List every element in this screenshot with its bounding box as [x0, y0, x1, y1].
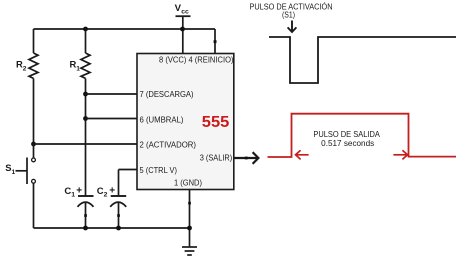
- waveform output pulse: [268, 114, 456, 157]
- capacitor C1 curved plate: [78, 202, 94, 207]
- power Vcc symbol bar: [176, 15, 191, 17]
- node junction R1 top: [83, 27, 88, 32]
- node junction trigger: [31, 142, 36, 147]
- wire C2 to bottom rail: [118, 203, 120, 229]
- resistor R2: [29, 53, 38, 78]
- wire R2 branch upper: [33, 29, 35, 53]
- wire pin 5 drop to C2: [118, 170, 120, 197]
- svg-text:2: 2: [104, 192, 108, 199]
- svg-text:1: 1: [12, 169, 16, 176]
- C1 stub dot: [84, 214, 87, 217]
- switch S1 bottom contact: [32, 179, 36, 183]
- switch S1 top contact: [32, 158, 36, 162]
- wire C1 to bottom rail: [85, 203, 87, 229]
- svg-text:+: +: [109, 186, 115, 197]
- node junction discharge: [83, 92, 88, 97]
- capacitor C1 top plate: [78, 195, 94, 197]
- wire bottom rail: [34, 227, 190, 229]
- svg-text:1: 1: [71, 192, 75, 199]
- width marker left arrow: [296, 150, 309, 159]
- capacitor C2 top plate: [111, 195, 127, 197]
- svg-text:7 (DESCARGA): 7 (DESCARGA): [140, 89, 194, 99]
- pin 4 stub dot: [214, 40, 217, 43]
- svg-text:1: 1: [76, 66, 80, 73]
- svg-text:(S1): (S1): [282, 11, 295, 20]
- wire pin 1 gnd drop: [189, 190, 191, 247]
- node junction threshold: [83, 116, 88, 121]
- IC U1 555 body: [137, 54, 234, 190]
- wire pin 7 discharge: [86, 93, 138, 95]
- trigger arrow: [288, 21, 297, 33]
- node junction Vcc rail: [180, 27, 185, 32]
- svg-text:6 (UMBRAL): 6 (UMBRAL): [140, 114, 184, 124]
- switch S1 actuator bar: [26, 158, 28, 185]
- svg-text:+: +: [76, 186, 82, 197]
- wire pin 2 trigger: [34, 143, 138, 145]
- svg-text:PULSO DE SALIDA: PULSO DE SALIDA: [313, 130, 380, 139]
- wire Vcc to pin 8: [182, 16, 184, 53]
- waveform trigger pulse: [269, 37, 456, 83]
- svg-text:8 (VCC) 4 (REINICIO): 8 (VCC) 4 (REINICIO): [159, 55, 234, 65]
- ground symbol: [182, 247, 197, 255]
- wire R1 branch upper: [85, 29, 87, 53]
- wire R1 branch to C1: [85, 78, 87, 196]
- wire R2 to trigger node: [33, 78, 35, 144]
- svg-text:555: 555: [202, 114, 230, 131]
- pin 1 stub dot: [188, 202, 191, 205]
- wire switch to bottom rail: [33, 183, 35, 228]
- svg-text:1 (GND): 1 (GND): [174, 177, 202, 187]
- node junction C1 bottom: [83, 226, 88, 231]
- wire pin 5 ctrl: [119, 169, 138, 171]
- svg-text:cc: cc: [181, 9, 189, 16]
- node junction C2 bottom: [116, 226, 121, 231]
- width marker right arrow: [393, 150, 407, 159]
- wire pin4 reset drop: [214, 29, 216, 54]
- wire top rail Vcc: [34, 28, 216, 30]
- svg-text:2 (ACTIVADOR): 2 (ACTIVADOR): [140, 140, 197, 150]
- svg-text:0.517 seconds: 0.517 seconds: [321, 139, 374, 148]
- output pin stub dot: [245, 157, 248, 160]
- resistor R1: [81, 53, 90, 78]
- switch S1 actuator stem: [16, 170, 28, 172]
- svg-text:2: 2: [23, 66, 27, 73]
- node junction gnd: [187, 226, 192, 231]
- C2 stub dot: [117, 214, 120, 217]
- svg-text:3 (SALIR): 3 (SALIR): [200, 153, 233, 163]
- output arrow pin 3: [234, 152, 259, 164]
- capacitor C2 curved plate: [110, 202, 126, 207]
- svg-text:5 (CTRL V): 5 (CTRL V): [140, 165, 178, 175]
- wire pin 6 threshold: [86, 118, 138, 120]
- wire trigger node to switch: [33, 144, 35, 158]
